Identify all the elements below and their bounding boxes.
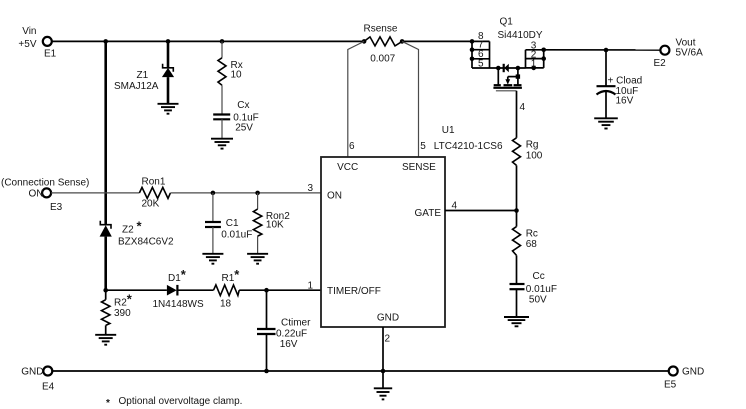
node Ctimer top: [264, 288, 269, 293]
svg-text:E4: E4: [42, 382, 55, 393]
ground under C1: [202, 254, 223, 264]
svg-text:U1: U1: [442, 125, 455, 136]
svg-text:LTC4210-1CS6: LTC4210-1CS6: [434, 141, 503, 152]
svg-text:E2: E2: [654, 58, 667, 69]
transistor Q1 pin ladder left: [470, 17, 543, 70]
svg-text:Rsense: Rsense: [364, 24, 398, 35]
node Ctimer bottom rail junction: [264, 369, 269, 374]
wire bottom rail: [52, 370, 668, 372]
capacitor Cc: [510, 271, 557, 317]
wire gate of Q1 down to Rg: [516, 91, 518, 138]
ground under Ron2: [247, 254, 268, 264]
svg-text:0.007: 0.007: [370, 53, 395, 64]
svg-text:*: *: [106, 398, 110, 409]
diode D1: [153, 267, 204, 310]
node Rx top: [220, 39, 225, 44]
node Z1 top: [166, 39, 171, 44]
svg-text:Optional overvoltage clamp.: Optional overvoltage clamp.: [119, 396, 243, 407]
svg-text:Cx: Cx: [237, 100, 249, 111]
terminal E5: [664, 367, 704, 391]
wire top rail from Rsense to Q1: [402, 40, 489, 42]
svg-text:Q1: Q1: [500, 17, 514, 28]
svg-text:E1: E1: [44, 48, 57, 59]
svg-text:GND: GND: [21, 367, 43, 378]
svg-text:0.01uF: 0.01uF: [526, 284, 557, 295]
svg-text:0.01uF: 0.01uF: [221, 229, 252, 240]
svg-text:5: 5: [478, 59, 484, 70]
svg-text:18: 18: [220, 298, 232, 309]
svg-text:Ron1: Ron1: [142, 177, 166, 188]
svg-text:1: 1: [531, 59, 537, 70]
svg-text:VCC: VCC: [337, 162, 358, 173]
terminal E4: [21, 367, 54, 393]
node rsense right: [400, 39, 405, 44]
node gnd rail junction: [381, 369, 386, 374]
svg-text:Z1: Z1: [137, 70, 149, 81]
svg-text:Vin: Vin: [22, 26, 36, 37]
wire D1 to R1: [177, 289, 213, 291]
capacitor Ctimer: [257, 290, 311, 371]
resistor Ron1: [139, 177, 170, 210]
resistor R2: [102, 290, 133, 335]
wire ON from Ron1 to U1 pin 3: [170, 192, 321, 194]
wire top rail from E1 to Rsense: [52, 40, 364, 42]
svg-text:SENSE: SENSE: [402, 162, 436, 173]
svg-text:(Connection Sense): (Connection Sense): [1, 178, 89, 189]
svg-text:10K: 10K: [266, 220, 284, 231]
wire R1 to U1 pin 1: [239, 289, 321, 291]
svg-text:C1: C1: [226, 218, 239, 229]
resistor R1: [214, 267, 241, 309]
svg-text:GND: GND: [377, 313, 399, 324]
svg-text:BZX84C6V2: BZX84C6V2: [118, 237, 174, 248]
svg-text:0.22uF: 0.22uF: [276, 329, 307, 340]
svg-text:Rc: Rc: [526, 229, 538, 240]
ground under Cx: [211, 139, 233, 149]
ground under Cc: [504, 317, 529, 326]
zener Z2: [100, 219, 174, 291]
node rsense left: [362, 39, 367, 44]
zener Z1: [114, 41, 174, 103]
node vin column: [103, 39, 108, 44]
ground under Z1: [158, 104, 179, 114]
ground under R2: [95, 335, 116, 345]
svg-text:ON: ON: [327, 191, 342, 202]
svg-text:3: 3: [307, 183, 313, 194]
resistor Rsense: [364, 24, 403, 65]
svg-text:Si4410DY: Si4410DY: [498, 30, 543, 41]
svg-text:5: 5: [420, 141, 426, 152]
svg-text:5V/6A: 5V/6A: [676, 48, 704, 59]
svg-text:2: 2: [385, 334, 391, 345]
op-amp U1: [307, 125, 503, 345]
wire U1 GND pin 2: [382, 327, 384, 388]
terminal E2: [654, 38, 704, 70]
ground under Cload: [594, 118, 618, 128]
resistor Ron2: [253, 193, 290, 254]
svg-text:+5V: +5V: [18, 39, 36, 50]
svg-text:ON: ON: [29, 189, 44, 200]
svg-text:GATE: GATE: [415, 208, 442, 219]
wire GATE from U1 pin 4: [445, 210, 517, 212]
svg-text:16V: 16V: [280, 339, 298, 350]
capacitor Cx: [213, 100, 259, 139]
svg-text:6: 6: [349, 141, 355, 152]
terminal E1: [18, 26, 56, 59]
node C1 top: [211, 191, 216, 196]
svg-text:Rg: Rg: [526, 139, 539, 150]
svg-text:SMAJ12A: SMAJ12A: [114, 81, 159, 92]
node gate junction: [514, 208, 519, 213]
node R2/D1 junction: [103, 288, 108, 293]
svg-text:TIMER/OFF: TIMER/OFF: [327, 286, 381, 297]
wire ON from E3 to Ron1: [51, 192, 139, 194]
resistor Rx: [218, 41, 243, 114]
wire vertical Vin to Z2: [104, 41, 107, 224]
svg-text:100: 100: [526, 151, 543, 162]
svg-text:25V: 25V: [235, 123, 253, 134]
svg-text:GND: GND: [682, 367, 704, 378]
node Ron2 top: [255, 191, 260, 196]
wire kelvin sense right to U1 pin 5: [402, 41, 418, 157]
resistor Rc: [513, 211, 538, 285]
svg-text:68: 68: [526, 239, 538, 250]
resistor Rg: [513, 138, 543, 211]
svg-text:Cc: Cc: [533, 271, 545, 282]
svg-text:Ctimer: Ctimer: [281, 317, 311, 328]
wire kelvin sense left to U1 pin 6: [348, 41, 364, 157]
svg-text:20K: 20K: [142, 199, 160, 210]
svg-text:4: 4: [520, 102, 526, 113]
wire Vout from Q1 to E2: [544, 49, 661, 51]
node Cload top: [604, 48, 609, 53]
transistor Q1 pin ladder right: [526, 41, 547, 71]
svg-text:1: 1: [307, 281, 313, 292]
svg-text:390: 390: [114, 308, 131, 319]
transistor Q1 mosfet symbol: [493, 64, 525, 113]
terminal E3: [1, 178, 89, 214]
svg-text:16V: 16V: [616, 96, 634, 107]
svg-text:E3: E3: [50, 202, 63, 213]
ground under U1 pin 2: [374, 388, 392, 399]
svg-text:E5: E5: [664, 380, 677, 391]
svg-text:1N4148WS: 1N4148WS: [153, 299, 204, 310]
svg-text:+ Cload: + Cload: [608, 76, 643, 87]
wire TIMER/OFF from node to D1: [106, 289, 167, 291]
svg-text:50V: 50V: [529, 294, 547, 305]
svg-text:10: 10: [231, 70, 243, 81]
capacitor C1: [205, 193, 252, 254]
capacitor Cload: [597, 50, 643, 118]
